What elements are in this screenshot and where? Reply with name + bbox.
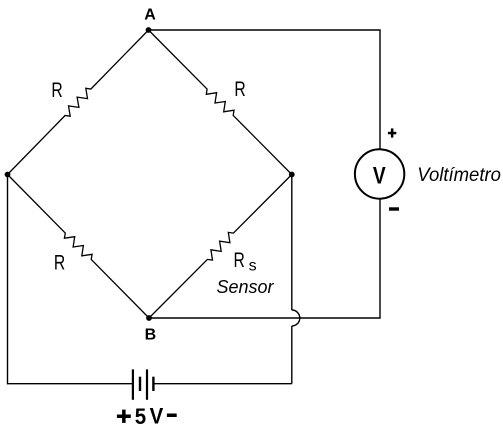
svg-text:s: s — [249, 257, 257, 274]
svg-text:A: A — [144, 7, 156, 24]
svg-text:V: V — [373, 161, 386, 189]
svg-text:R: R — [51, 78, 62, 102]
svg-text:5: 5 — [135, 404, 147, 428]
svg-text:R: R — [54, 250, 65, 274]
svg-text:R: R — [234, 248, 245, 272]
svg-text:Sensor: Sensor — [216, 277, 274, 297]
svg-text:R: R — [234, 77, 245, 101]
svg-text:Voltímetro: Voltímetro — [417, 165, 501, 187]
svg-text:V: V — [150, 404, 164, 428]
svg-text:B: B — [145, 327, 157, 344]
